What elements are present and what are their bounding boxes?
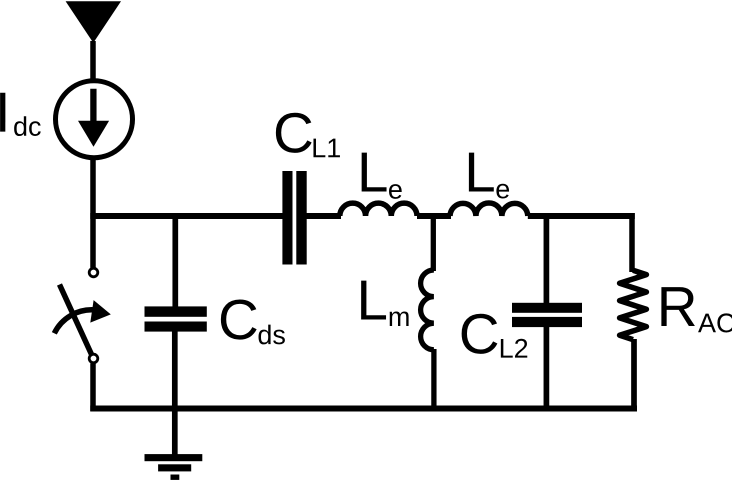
svg-text:L: L [356, 269, 387, 332]
wire: Cds bottom plate through rail to ground symbol [172, 332, 178, 455]
capacitor CL1 right plate [296, 171, 306, 265]
svg-text:L: L [357, 141, 388, 204]
inductor Le2 (three humps) [450, 203, 528, 216]
bottom ground rail wire [90, 406, 637, 412]
svg-text:L2: L2 [499, 334, 529, 364]
current source Idc circle [56, 81, 133, 158]
svg-text:C: C [218, 288, 259, 351]
switch S1 top contact [89, 268, 98, 277]
capacitor CL2 bottom plate [512, 317, 582, 327]
current source arrow head [78, 121, 109, 147]
label CL1 [273, 101, 341, 164]
wire: current source to switch top contact [90, 157, 96, 268]
supply symbol (filled triangle, VDD feed) [66, 1, 121, 43]
current source arrow shaft [90, 89, 96, 125]
wire: Lm to ground rail [431, 349, 436, 411]
wire: node A down to Cds top plate [172, 213, 178, 307]
svg-text:AC: AC [698, 308, 732, 338]
svg-text:C: C [273, 101, 314, 164]
svg-text:R: R [657, 275, 698, 338]
capacitor CL2 top plate [512, 303, 582, 313]
label Idc [0, 81, 42, 144]
svg-text:L1: L1 [311, 133, 341, 163]
wire: node C down to CL2 top plate [544, 213, 550, 303]
inductor Lm (three humps, bulging left) [421, 270, 434, 350]
top wire node A (main horizontal rail) [90, 213, 283, 219]
wire: CL2 bottom plate to ground rail [544, 327, 550, 411]
capacitor CL1 left plate [282, 171, 292, 265]
svg-text:e: e [388, 175, 403, 205]
wire: Le2 to top-right corner [528, 213, 635, 219]
wire: top-right corner down to resistor RAC [629, 213, 635, 272]
label Le1 [357, 141, 403, 205]
wire: Le1 to Le2 through node B [417, 213, 451, 219]
svg-text:dc: dc [13, 112, 42, 142]
svg-text:C: C [459, 302, 500, 365]
switch S1 bottom contact [89, 354, 98, 363]
wire: CL1 right plate to inductor Le1 [306, 213, 341, 219]
svg-text:ds: ds [257, 320, 286, 350]
ground symbol bar 3 [171, 475, 180, 480]
switch S1 blade [60, 285, 93, 356]
ground symbol bar 2 [158, 464, 191, 471]
wire: resistor RAC to ground rail [631, 339, 637, 411]
inductor Le1 (three humps) [340, 203, 417, 216]
label CL2 [459, 302, 529, 365]
capacitor Cds bottom plate [145, 322, 207, 332]
label Cds [218, 288, 286, 351]
resistor RAC (zigzag) [620, 270, 647, 339]
wire: supply triangle to current source [90, 41, 96, 82]
capacitor Cds top plate [145, 306, 207, 316]
svg-text:L: L [464, 141, 495, 204]
svg-text:I: I [0, 81, 11, 144]
label Le2 [464, 141, 510, 205]
label RAC [657, 275, 732, 338]
switch actuation arrow head [90, 300, 111, 323]
ground symbol bar 1 [145, 454, 203, 461]
svg-text:m: m [388, 302, 411, 332]
switch actuation arrow (arc) [54, 310, 94, 333]
wire: switch bottom contact to ground rail [90, 364, 96, 412]
label Lm [356, 269, 410, 333]
wire: node B down to inductor Lm [431, 213, 436, 271]
svg-text:e: e [495, 174, 510, 204]
